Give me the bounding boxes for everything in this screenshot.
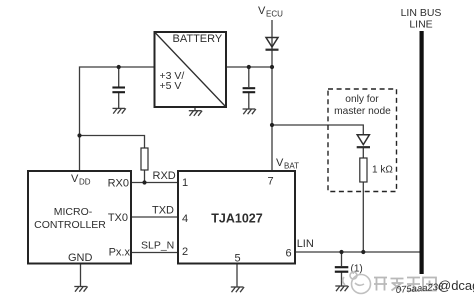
node LIN/C3: [339, 250, 343, 254]
wire TXD: [131, 216, 178, 218]
capacitor C2: [243, 88, 256, 92]
svg-text:RXD: RXD: [153, 170, 176, 182]
node VECU/top wire: [270, 65, 274, 69]
wire: [271, 20, 273, 171]
diode D2 (master node): [357, 135, 370, 147]
svg-text:1 kΩ: 1 kΩ: [372, 165, 393, 176]
svg-text:DD: DD: [79, 178, 91, 187]
svg-text:Px.x: Px.x: [109, 247, 131, 259]
wire: [341, 252, 343, 266]
node C1/top wire: [117, 65, 121, 69]
svg-text:GND: GND: [68, 252, 93, 264]
resistor R1 (RXD pull-up): [141, 148, 148, 170]
wire RXD: [131, 182, 178, 184]
ground (C1): [113, 108, 126, 113]
wire MC gnd: [80, 264, 82, 287]
ground (C2): [243, 109, 256, 114]
wire: [80, 136, 145, 149]
watermark glyph 3: [407, 278, 420, 291]
ground (battery): [189, 111, 202, 116]
svg-text:TX0: TX0: [108, 212, 128, 224]
wire LIN: [295, 251, 420, 253]
svg-text:LIN BUS: LIN BUS: [401, 7, 442, 19]
svg-text:RX0: RX0: [108, 178, 129, 190]
svg-text:+5 V: +5 V: [160, 80, 182, 92]
watermark glyph 1: [374, 278, 387, 291]
svg-text:V: V: [71, 173, 79, 185]
watermark logo: [343, 272, 371, 294]
watermark glyph 4: [423, 278, 436, 291]
net label VBAT: [276, 157, 299, 171]
wire SLP_N: [131, 252, 178, 254]
capacitor C1: [112, 88, 125, 93]
wire: [144, 170, 146, 183]
ground (MC): [74, 287, 87, 292]
wire: [118, 93, 120, 108]
wire battery gnd: [194, 107, 196, 111]
wire: [80, 67, 155, 171]
svg-text:4: 4: [182, 213, 188, 225]
svg-text:MICRO-: MICRO-: [54, 206, 93, 218]
svg-text:LINE: LINE: [409, 19, 432, 31]
svg-text:master node: master node: [334, 106, 391, 117]
ground (TJA pin5): [231, 287, 244, 292]
svg-text:5: 5: [235, 253, 241, 265]
capacitor C3 (1): [335, 263, 363, 274]
svg-text:TXD: TXD: [152, 205, 174, 217]
svg-text:V: V: [276, 157, 284, 169]
svg-text:LIN: LIN: [297, 238, 314, 250]
svg-text:V: V: [258, 5, 266, 17]
dashed box: only for master node: [328, 89, 397, 192]
svg-text:SLP_N: SLP_N: [141, 240, 174, 252]
wire: [248, 67, 250, 87]
wire: [362, 148, 364, 159]
wire: [248, 93, 250, 109]
ground (C3): [335, 286, 348, 291]
svg-text:ECU: ECU: [266, 10, 283, 19]
micro-controller U2: [28, 171, 131, 264]
svg-text:CONTROLLER: CONTROLLER: [34, 219, 106, 231]
transceiver U1 TJA1027: [178, 171, 295, 265]
svg-text:7: 7: [268, 176, 274, 188]
label LIN BUS LINE: [401, 7, 442, 31]
wire to master node: [272, 125, 363, 135]
svg-text:BATTERY: BATTERY: [173, 33, 223, 45]
resistor R2 1 kOhm: [360, 158, 394, 182]
svg-text:only for: only for: [345, 94, 379, 105]
svg-text:6: 6: [286, 248, 292, 260]
svg-text:TJA1027: TJA1027: [211, 212, 262, 226]
svg-text:BAT: BAT: [284, 162, 299, 171]
node VBAT branch: [270, 123, 274, 127]
LIN bus line: [420, 31, 424, 274]
node VDD/resistor branch: [77, 133, 81, 137]
node LIN/R2: [361, 250, 365, 254]
wire: [362, 182, 364, 252]
diode D1 (VECU): [266, 38, 279, 50]
wire TJA pin5 gnd: [236, 264, 238, 288]
watermark glyph 2: [391, 278, 404, 291]
node C2/top wire: [247, 65, 251, 69]
wire: [226, 66, 272, 68]
node RXD/resistor: [142, 180, 146, 184]
wire: [118, 67, 120, 87]
wire: [341, 273, 343, 287]
battery B1: [155, 32, 227, 107]
svg-text:1: 1: [182, 177, 188, 189]
net label VECU: [258, 5, 283, 19]
svg-text:2: 2: [182, 246, 188, 258]
